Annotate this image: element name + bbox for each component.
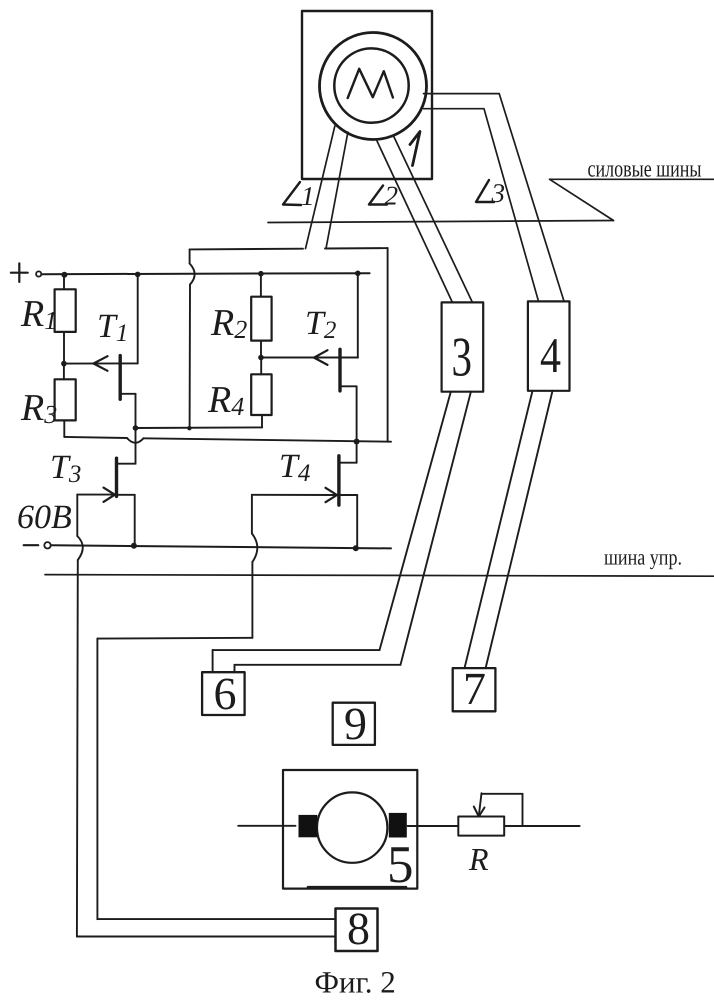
svg-text:5: 5 xyxy=(387,836,414,894)
label 60В xyxy=(17,499,72,536)
wire: control loop enclosure (L1 feed) xyxy=(190,248,388,441)
junction dots on + rail xyxy=(61,271,360,278)
resistor R2 xyxy=(251,276,271,358)
wire L3 lower (motor to block 4) xyxy=(424,109,539,302)
wire into block 5 left xyxy=(238,825,295,827)
label R2 xyxy=(210,302,247,344)
block 8 xyxy=(336,903,378,954)
svg-text:9: 9 xyxy=(344,698,367,749)
armature circle xyxy=(317,792,387,862)
wire: 60V rail xyxy=(52,545,392,548)
label 1 xyxy=(410,132,420,166)
brush left xyxy=(299,815,318,837)
svg-text:3: 3 xyxy=(491,178,506,208)
box 1 (electric machine unit) xyxy=(302,11,432,179)
motor M inner circle xyxy=(334,48,408,122)
svg-text:R: R xyxy=(468,841,489,877)
power bus callout (силовые шины) xyxy=(268,157,714,223)
wire T3 source down to block 8 xyxy=(77,495,336,937)
wire L1 pair (motor to control circuit) xyxy=(306,126,348,248)
svg-text:7: 7 xyxy=(463,663,486,714)
node T3 drain on 60V rail xyxy=(131,543,137,549)
svg-text:3: 3 xyxy=(452,327,473,389)
label L2 xyxy=(369,181,398,211)
label T4 xyxy=(279,448,310,487)
label T2 xyxy=(305,305,336,344)
svg-text:шина упр.: шина упр. xyxy=(604,544,682,569)
node T4 drain on 60V rail xyxy=(353,545,359,551)
block 4 xyxy=(528,301,570,390)
svg-text:силовые шины: силовые шины xyxy=(588,157,702,183)
label L3 xyxy=(476,178,505,208)
label R3 xyxy=(20,387,57,429)
wires block 4 to block 7 xyxy=(465,391,553,668)
wire block 5 to resistor R xyxy=(408,825,459,827)
wire right of resistor R xyxy=(504,825,579,827)
block 5 (machine with brushes) xyxy=(283,770,417,889)
transistor T1 xyxy=(64,274,138,428)
svg-text:2: 2 xyxy=(385,181,399,211)
label T1 xyxy=(97,308,128,347)
label R4 xyxy=(207,379,244,421)
label T3 xyxy=(50,449,81,488)
wire L3 upper (motor to block 4) xyxy=(424,94,565,302)
label R xyxy=(468,841,489,877)
motor M outer circle xyxy=(320,33,427,140)
node R1/R3 junction xyxy=(61,361,67,367)
svg-text:4: 4 xyxy=(540,327,561,383)
node + (plus terminal) xyxy=(11,263,41,282)
label 5 xyxy=(387,836,414,894)
wires block 3 to block 6 xyxy=(213,392,471,673)
node T2 collector / T4 gate xyxy=(354,439,360,445)
wire L2 pair (motor to block 3) xyxy=(377,137,472,302)
transistor T3 xyxy=(77,428,135,546)
control bus line (шина упр.) xyxy=(45,544,714,576)
label R1 xyxy=(20,293,57,335)
wire: + supply rail xyxy=(42,273,370,274)
node on upper bus xyxy=(133,425,192,431)
wire: R3 bottom bus (lower) with hop xyxy=(64,437,391,443)
node 60V terminal xyxy=(24,542,51,548)
transistor T2 xyxy=(261,273,358,441)
svg-text:1: 1 xyxy=(301,181,315,211)
motor M letter xyxy=(348,69,393,98)
wire T4 source down-left to block 8 xyxy=(97,495,335,919)
caption Фиг. 2 xyxy=(315,965,396,1000)
svg-text:60В: 60В xyxy=(17,499,72,536)
block 7 xyxy=(453,663,496,714)
block 3 xyxy=(442,302,484,391)
wire: T1 collector bus (upper) xyxy=(136,426,263,429)
svg-text:Фиг. 2: Фиг. 2 xyxy=(315,965,396,1000)
resistor R3 xyxy=(55,364,76,437)
label L1 xyxy=(283,181,315,211)
resistor R (rheostat) xyxy=(458,793,522,835)
block 6 xyxy=(202,668,245,719)
svg-text:8: 8 xyxy=(347,903,370,954)
brush right xyxy=(389,813,407,838)
block 9 xyxy=(333,698,375,749)
node R2/R4 junction xyxy=(258,355,264,361)
resistor R4 xyxy=(251,358,271,428)
transistor T4 xyxy=(252,442,357,549)
svg-text:6: 6 xyxy=(214,668,237,719)
resistor R1 xyxy=(55,278,76,364)
